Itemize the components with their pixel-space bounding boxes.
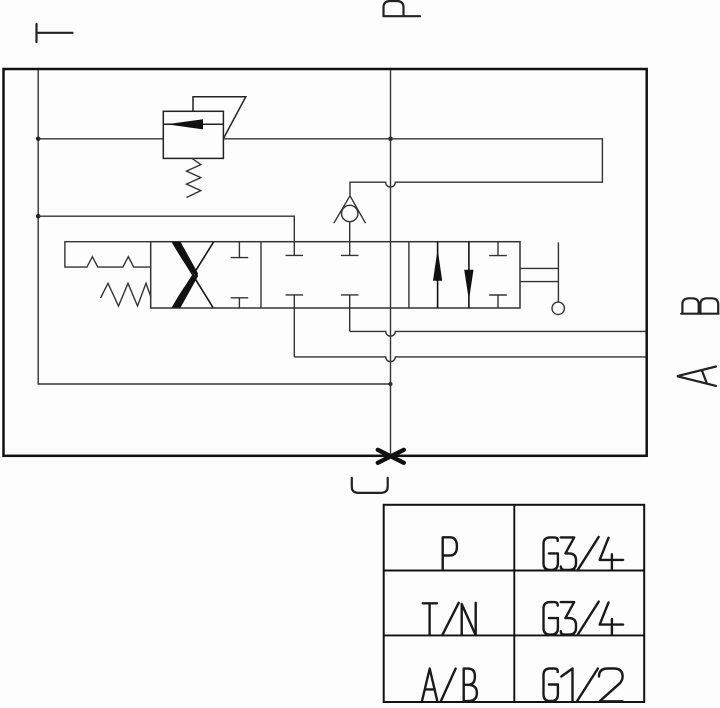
node junction C	[389, 382, 393, 386]
valve section divider 1	[260, 242, 262, 308]
relief valve spring	[187, 158, 201, 197]
relief valve pilot flag	[193, 97, 246, 139]
wire relief left	[38, 138, 163, 140]
table row line 1	[384, 570, 645, 572]
table text A/B	[422, 669, 477, 702]
arrow down	[468, 242, 470, 308]
plug X at C port	[378, 450, 404, 463]
node junction T-relief	[36, 137, 41, 142]
port mark s4 top	[489, 242, 507, 256]
wire T to valve port	[38, 216, 294, 255]
table frame	[384, 505, 645, 702]
check valve outlet wire	[349, 222, 351, 256]
port mark s3 top	[341, 254, 359, 256]
wire T vertical with bottom run	[38, 70, 390, 384]
label P	[384, 1, 421, 16]
wire B	[350, 331, 646, 336]
spool X wedge upper	[172, 242, 198, 277]
check valve ball	[342, 205, 358, 221]
wire P vertical	[390, 70, 392, 456]
table text T/N	[423, 603, 476, 636]
label B	[681, 298, 718, 313]
frame border	[4, 69, 647, 456]
node junction P-relief	[388, 137, 393, 142]
port mark s2 bottom	[286, 295, 304, 357]
node junction T-valve	[36, 214, 41, 219]
spool X cross lines	[172, 242, 213, 308]
table row line 2	[384, 634, 645, 636]
port mark s1 top	[231, 242, 249, 258]
table text G3/4 row1	[544, 537, 624, 570]
port mark s3 bottom	[341, 295, 359, 332]
relief valve RV1 body	[163, 111, 223, 158]
table text G1/2	[544, 669, 623, 702]
wire relief right loop to check valve	[223, 139, 602, 196]
valve section divider 2	[408, 242, 410, 308]
lever knob	[552, 302, 564, 314]
label T	[37, 24, 73, 42]
arrow up	[437, 242, 439, 308]
table text G3/4 row2	[544, 602, 624, 635]
label C	[352, 478, 388, 493]
spool X wedge lower	[172, 273, 198, 308]
relief valve arrow	[163, 123, 223, 125]
port mark s1 bottom	[231, 298, 249, 308]
valve V1 body	[151, 242, 520, 308]
label A	[677, 367, 716, 386]
table column divider	[513, 505, 515, 702]
spring main	[101, 283, 151, 306]
spring box	[65, 242, 151, 267]
table text P	[443, 537, 457, 570]
wire A	[294, 357, 645, 362]
lever actuator	[520, 242, 558, 302]
port mark s4 bottom	[489, 295, 507, 308]
check valve CV1 seat	[334, 196, 366, 223]
port mark s2 top	[286, 254, 304, 256]
